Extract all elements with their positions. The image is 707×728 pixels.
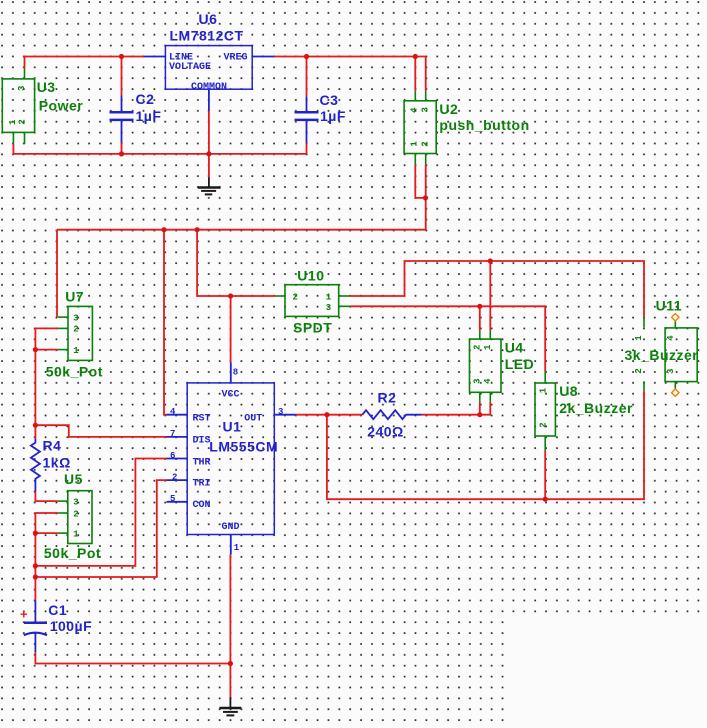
svg-text:U10: U10 bbox=[297, 268, 324, 284]
svg-text:1: 1 bbox=[73, 346, 79, 356]
svg-text:1µF: 1µF bbox=[320, 108, 346, 124]
svg-text:1: 1 bbox=[326, 293, 332, 303]
svg-text:+: + bbox=[20, 607, 28, 622]
wire W2 to U1 RST pin4 bbox=[164, 230, 167, 415]
wire W2 horizontal bus y=230 bbox=[57, 229, 426, 231]
svg-text:7: 7 bbox=[170, 429, 175, 439]
svg-text:2: 2 bbox=[420, 141, 430, 146]
svg-text:1: 1 bbox=[234, 543, 240, 553]
wire R4 bottom to U5 pin3 bbox=[35, 492, 58, 502]
svg-text:GND: GND bbox=[222, 522, 240, 533]
svg-text:1: 1 bbox=[73, 529, 79, 539]
svg-text:TRI: TRI bbox=[193, 479, 211, 490]
timer U1 LM555CM bbox=[167, 363, 296, 555]
svg-text:R4: R4 bbox=[43, 438, 62, 454]
wire W2 to U7 pin3 bbox=[56, 230, 58, 317]
svg-text:U11: U11 bbox=[656, 298, 682, 314]
wire U10 pin1 up and across to U11 bbox=[351, 261, 645, 317]
wire U1 OUT to R2 bbox=[296, 414, 363, 416]
wire U7 pin2 row and left column to R4 bbox=[35, 328, 58, 439]
svg-text:50k_Pot: 50k_Pot bbox=[46, 364, 103, 380]
svg-text:2: 2 bbox=[17, 119, 27, 124]
svg-text:3: 3 bbox=[278, 407, 283, 417]
wire U7 pin1 row bbox=[35, 349, 58, 351]
svg-text:THR: THR bbox=[193, 457, 211, 468]
resistor R2 240Ohm bbox=[362, 390, 421, 440]
svg-text:push_button: push_button bbox=[439, 117, 529, 133]
wire U2 bottom pins to node bbox=[415, 165, 425, 230]
wire node to U1 VCC pin8 bbox=[230, 296, 232, 363]
svg-text:C1: C1 bbox=[48, 602, 67, 618]
wire W2 to U10 pin2 bbox=[197, 230, 275, 296]
svg-text:VOLTAGE: VOLTAGE bbox=[169, 62, 211, 73]
wire U5 pin1 row bbox=[35, 532, 58, 534]
wire node to U1 THR pin6 bbox=[35, 459, 166, 566]
svg-text:1kΩ: 1kΩ bbox=[43, 454, 71, 470]
wire OUT node down and across to U11 column bbox=[327, 391, 644, 499]
buzzer U11 3k_Buzzer bbox=[625, 298, 699, 397]
svg-text:SPDT: SPDT bbox=[293, 320, 332, 336]
wire C2 top lead (red part) bbox=[121, 57, 123, 96]
svg-text:1: 1 bbox=[538, 387, 548, 393]
wire node to U4 top-left pin bbox=[479, 306, 481, 331]
svg-text:C2: C2 bbox=[136, 91, 155, 107]
wire U6 COMMON to ground bbox=[208, 111, 210, 177]
wire R2 right to U4 bottom pins bbox=[422, 402, 491, 415]
svg-text:LM555CM: LM555CM bbox=[209, 438, 278, 454]
svg-text:3: 3 bbox=[73, 313, 78, 323]
svg-text:4: 4 bbox=[410, 107, 420, 113]
svg-text:3: 3 bbox=[473, 378, 483, 383]
switch U10 SPDT bbox=[275, 268, 350, 336]
svg-text:3: 3 bbox=[666, 369, 676, 374]
potentiometer U5 50k_Pot bbox=[44, 471, 101, 561]
svg-text:4: 4 bbox=[666, 335, 676, 341]
svg-text:1: 1 bbox=[410, 141, 420, 147]
svg-text:RST: RST bbox=[193, 413, 211, 424]
svg-text:4: 4 bbox=[170, 407, 176, 417]
svg-text:LM7812CT: LM7812CT bbox=[170, 28, 244, 44]
wire C3 bottom lead (red part) bbox=[306, 143, 308, 154]
wire U2 pin feeds from top bus bbox=[415, 57, 425, 91]
svg-text:2: 2 bbox=[73, 509, 78, 519]
LED U4 bbox=[470, 331, 535, 402]
resistor R4 1kOhm bbox=[31, 438, 71, 492]
push button U2 bbox=[404, 91, 530, 165]
svg-text:VREG: VREG bbox=[224, 52, 248, 63]
buzzer U8 2k_Buzzer bbox=[535, 371, 633, 450]
svg-text:DIS: DIS bbox=[193, 436, 211, 447]
wire U5 pin2 row down to C1 top bbox=[35, 513, 58, 600]
regulator U6 LM7812CT bbox=[144, 11, 274, 111]
wire U8 bottom to bus bbox=[544, 451, 546, 500]
svg-text:U1: U1 bbox=[223, 419, 242, 435]
svg-text:1: 1 bbox=[634, 335, 644, 341]
svg-text:R2: R2 bbox=[378, 390, 397, 406]
svg-text:U6: U6 bbox=[199, 11, 218, 27]
wire node to U4 top-right pin bbox=[489, 261, 491, 331]
potentiometer U7 50k_Pot bbox=[46, 289, 103, 380]
svg-text:U4: U4 bbox=[505, 340, 524, 356]
svg-text:2: 2 bbox=[73, 325, 78, 335]
svg-text:8: 8 bbox=[233, 368, 238, 378]
svg-text:U5: U5 bbox=[64, 471, 83, 487]
svg-text:2: 2 bbox=[473, 345, 483, 350]
wire node to U1 DIS pin7 bbox=[35, 425, 166, 437]
svg-text:U3: U3 bbox=[37, 79, 56, 95]
wire U1 GND pin1 to ground bbox=[229, 555, 231, 698]
svg-text:U8: U8 bbox=[559, 383, 578, 399]
ground (top, under U6) bbox=[198, 177, 221, 194]
svg-text:C3: C3 bbox=[320, 92, 339, 108]
svg-text:2k_Buzzer: 2k_Buzzer bbox=[559, 400, 633, 416]
wire C2 bottom lead (red part) bbox=[121, 143, 123, 154]
svg-text:2: 2 bbox=[634, 368, 644, 373]
svg-text:3k_Buzzer: 3k_Buzzer bbox=[625, 347, 699, 363]
wire C3 top lead (red part) bbox=[306, 57, 308, 97]
svg-text:2: 2 bbox=[293, 293, 298, 303]
svg-text:3: 3 bbox=[73, 497, 78, 507]
wire bottom bus (U3 pin1 to C3) bbox=[13, 144, 306, 154]
wire node to U1 TRI pin2 bbox=[35, 480, 166, 577]
svg-text:Power: Power bbox=[39, 97, 84, 113]
svg-text:100µF: 100µF bbox=[50, 618, 92, 634]
wire top bus right (U6 VREG to U2) bbox=[274, 56, 426, 58]
svg-text:U2: U2 bbox=[439, 101, 458, 117]
svg-text:2: 2 bbox=[172, 472, 177, 482]
wire U10 pin3 to U8 top bbox=[351, 306, 546, 371]
svg-text:3: 3 bbox=[420, 107, 430, 112]
svg-text:OUT: OUT bbox=[244, 413, 262, 424]
svg-text:4: 4 bbox=[483, 378, 493, 384]
ground (bottom) bbox=[219, 697, 241, 715]
svg-text:5: 5 bbox=[170, 494, 175, 504]
svg-text:3: 3 bbox=[17, 86, 27, 91]
svg-text:3: 3 bbox=[326, 303, 331, 313]
svg-text:CON: CON bbox=[193, 500, 211, 511]
connector U3 Power bbox=[2, 68, 83, 144]
wire C1 bottom to ground bus bbox=[35, 652, 230, 663]
svg-text:240Ω: 240Ω bbox=[367, 423, 404, 439]
svg-text:VCC: VCC bbox=[222, 390, 240, 401]
svg-text:50k_Pot: 50k_Pot bbox=[44, 545, 101, 561]
wire top bus left (U3 to U6 LINE) bbox=[25, 57, 144, 68]
capacitor C3 bbox=[295, 92, 346, 143]
svg-text:1: 1 bbox=[483, 344, 493, 350]
svg-text:1µF: 1µF bbox=[136, 108, 162, 124]
svg-text:LED: LED bbox=[505, 356, 535, 372]
svg-text:2: 2 bbox=[538, 422, 548, 427]
capacitor C1 100uF (polarized) bbox=[20, 600, 92, 652]
svg-text:U7: U7 bbox=[65, 289, 84, 305]
svg-text:6: 6 bbox=[170, 451, 175, 461]
capacitor C2 bbox=[110, 91, 162, 143]
